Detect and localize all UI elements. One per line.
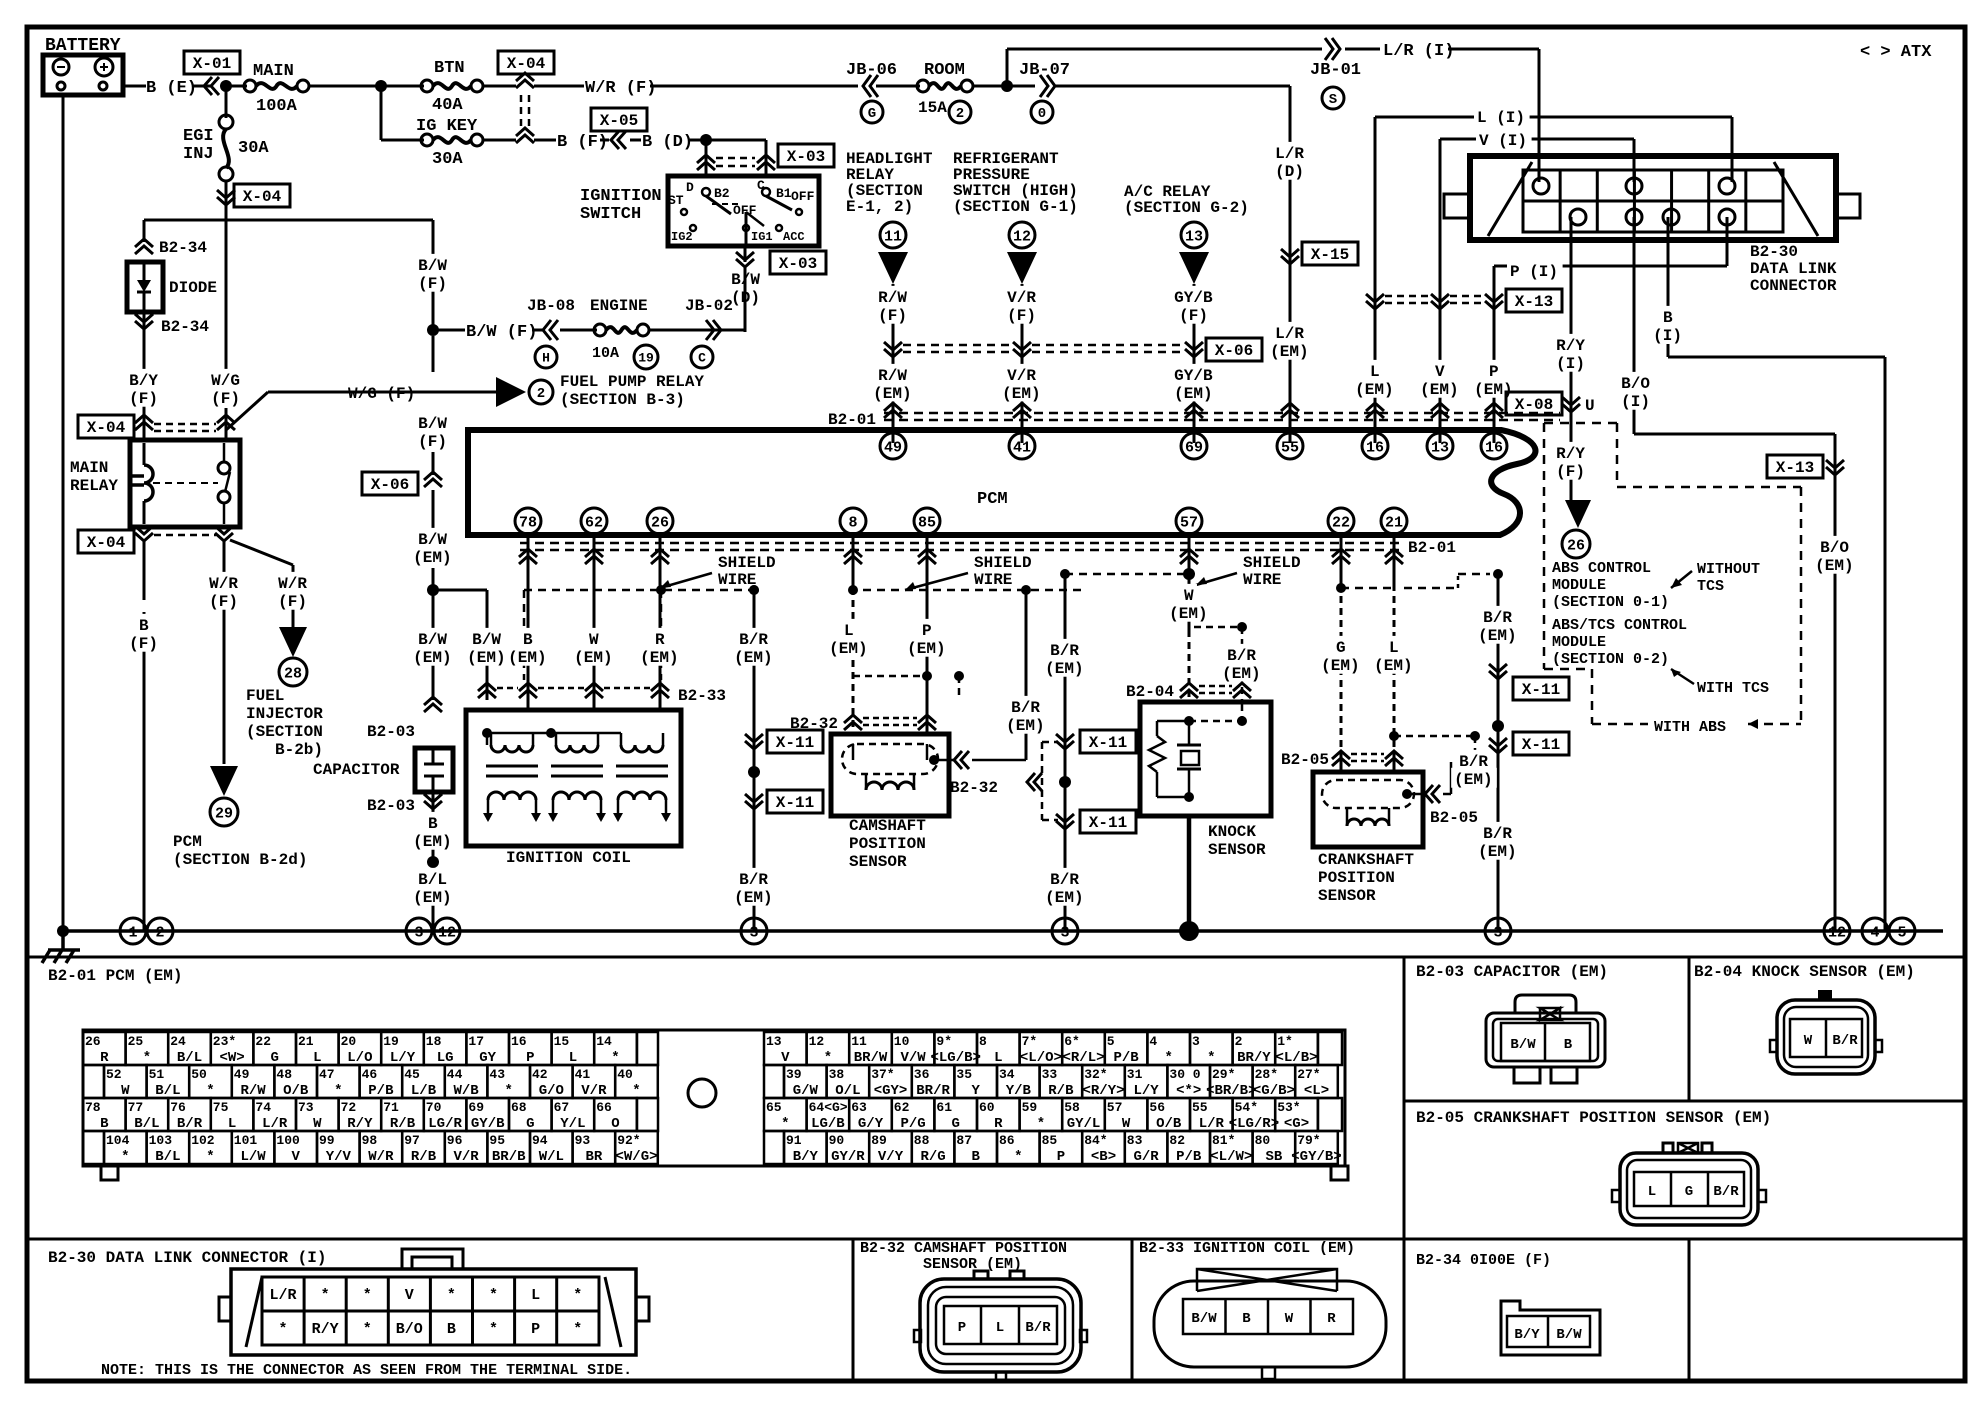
svg-text:(EM): (EM) bbox=[829, 640, 867, 658]
svg-text:B2-01: B2-01 bbox=[828, 411, 876, 429]
svg-text:3: 3 bbox=[749, 924, 758, 941]
svg-text:IGNITION: IGNITION bbox=[580, 187, 662, 206]
svg-text:B: B bbox=[971, 1149, 980, 1165]
svg-text:R: R bbox=[1327, 1311, 1336, 1327]
svg-text:<R/Y>: <R/Y> bbox=[1082, 1083, 1124, 1099]
svg-text:GY/B: GY/B bbox=[471, 1116, 505, 1132]
svg-text:X-11: X-11 bbox=[1089, 734, 1127, 752]
svg-text:V/R: V/R bbox=[581, 1083, 607, 1099]
dashed crank link bbox=[1394, 735, 1475, 738]
coil pin wires inside bbox=[486, 733, 489, 745]
svg-text:46: 46 bbox=[362, 1067, 378, 1082]
svg-text:SHIELD: SHIELD bbox=[1243, 554, 1301, 572]
arrow 28 bbox=[279, 627, 307, 657]
svg-text:B/W (F): B/W (F) bbox=[466, 323, 537, 342]
wire battery to X-01 bbox=[123, 85, 146, 88]
svg-text:26: 26 bbox=[85, 1034, 101, 1049]
svg-text:83: 83 bbox=[1127, 1133, 1143, 1148]
svg-text:G/W: G/W bbox=[793, 1083, 819, 1099]
horizontal distribution wire y=220 bbox=[144, 219, 433, 222]
svg-text:21: 21 bbox=[298, 1034, 314, 1049]
svg-text:38: 38 bbox=[829, 1067, 845, 1082]
svg-text:W/L: W/L bbox=[539, 1149, 564, 1165]
svg-text:LG: LG bbox=[437, 1050, 454, 1066]
diode connector drawing bbox=[1501, 1301, 1600, 1355]
svg-text:G: G bbox=[526, 1116, 534, 1132]
svg-text:2: 2 bbox=[956, 106, 964, 122]
svg-text:SB: SB bbox=[1265, 1149, 1282, 1165]
svg-text:41: 41 bbox=[575, 1067, 591, 1082]
svg-text:*: * bbox=[573, 1321, 582, 1338]
battery bbox=[43, 55, 123, 95]
svg-text:25: 25 bbox=[128, 1034, 144, 1049]
svg-text:55: 55 bbox=[1192, 1100, 1208, 1115]
svg-text:16: 16 bbox=[511, 1034, 527, 1049]
svg-text:BR/B: BR/B bbox=[492, 1149, 526, 1165]
svg-text:INJECTOR: INJECTOR bbox=[246, 705, 323, 723]
svg-text:B: B bbox=[1242, 1311, 1251, 1327]
svg-text:L/B: L/B bbox=[411, 1083, 437, 1099]
svg-text:(EM): (EM) bbox=[1169, 605, 1207, 623]
svg-text:66: 66 bbox=[596, 1100, 612, 1115]
svg-text:B/R: B/R bbox=[1713, 1184, 1739, 1200]
knock sensor connector drawing bbox=[1818, 990, 1832, 1000]
svg-text:8: 8 bbox=[979, 1034, 987, 1049]
capacitor connector drawing bbox=[1515, 995, 1576, 1013]
svg-text:(EM): (EM) bbox=[1478, 843, 1516, 861]
svg-text:DIODE: DIODE bbox=[169, 279, 217, 297]
svg-text:OFF: OFF bbox=[791, 189, 815, 204]
svg-text:(F): (F) bbox=[418, 433, 447, 451]
svg-text:WITH ABS: WITH ABS bbox=[1654, 719, 1726, 736]
wire W/R(F) to PCM 29 bbox=[223, 540, 226, 764]
camshaft position sensor box bbox=[831, 734, 949, 816]
svg-text:12: 12 bbox=[1013, 228, 1031, 245]
svg-text:86: 86 bbox=[999, 1133, 1015, 1148]
svg-text:2: 2 bbox=[1235, 1034, 1243, 1049]
svg-text:22: 22 bbox=[255, 1034, 271, 1049]
svg-text:IGNITION COIL: IGNITION COIL bbox=[506, 849, 631, 867]
connector X-01 bbox=[204, 77, 219, 95]
svg-text:L/W: L/W bbox=[240, 1149, 266, 1165]
svg-text:L: L bbox=[994, 1050, 1002, 1066]
wire B/R return camshaft bbox=[1025, 590, 1028, 760]
wire B/R right column bbox=[1497, 574, 1500, 931]
svg-text:Y: Y bbox=[971, 1083, 980, 1099]
svg-text:13: 13 bbox=[1185, 228, 1203, 245]
svg-text:NOTE: THIS IS THE CONNECTOR AS: NOTE: THIS IS THE CONNECTOR AS SEEN FROM… bbox=[101, 1362, 632, 1379]
connector X-13 right bbox=[1767, 455, 1823, 478]
svg-text:B/Y: B/Y bbox=[793, 1149, 819, 1165]
svg-text:56: 56 bbox=[1149, 1100, 1165, 1115]
ignition switch box bbox=[668, 176, 819, 246]
svg-text:47: 47 bbox=[319, 1067, 335, 1082]
section divider vertical x=1404 bbox=[1403, 957, 1406, 1381]
svg-text:*: * bbox=[334, 1083, 342, 1099]
connector X-05 bbox=[591, 108, 647, 131]
svg-text:15A: 15A bbox=[918, 99, 947, 117]
svg-text:92*: 92* bbox=[617, 1133, 640, 1148]
camshaft connector drawing bottom bbox=[974, 1271, 988, 1279]
svg-text:W/R: W/R bbox=[368, 1149, 394, 1165]
svg-text:80: 80 bbox=[1255, 1133, 1271, 1148]
svg-text:54*: 54* bbox=[1235, 1100, 1258, 1115]
svg-text:B (E): B (E) bbox=[146, 79, 197, 98]
svg-text:69: 69 bbox=[468, 1100, 484, 1115]
svg-text:JB-06: JB-06 bbox=[846, 61, 897, 80]
svg-text:L (I): L (I) bbox=[1477, 109, 1525, 127]
section divider vertical B2-03/B2-04 bbox=[1688, 957, 1691, 1101]
svg-text:B/R: B/R bbox=[177, 1116, 203, 1132]
knock sensor internals bbox=[1149, 736, 1165, 772]
svg-text:(F): (F) bbox=[1007, 307, 1036, 325]
svg-text:(SECTION B-2d): (SECTION B-2d) bbox=[173, 851, 307, 869]
svg-text:82: 82 bbox=[1169, 1133, 1185, 1148]
svg-text:B2-01: B2-01 bbox=[1408, 539, 1456, 557]
svg-text:40: 40 bbox=[617, 1067, 633, 1082]
svg-text:G: G bbox=[1685, 1184, 1693, 1200]
svg-text:X-11: X-11 bbox=[776, 794, 814, 812]
connector X-15 bbox=[1281, 249, 1299, 264]
svg-text:(F): (F) bbox=[278, 593, 307, 611]
svg-text:L/O: L/O bbox=[347, 1050, 372, 1066]
svg-text:X-06: X-06 bbox=[1215, 342, 1253, 360]
wires into ignition coil bbox=[527, 534, 530, 712]
svg-text:< > ATX: < > ATX bbox=[1860, 43, 1932, 62]
connector X-13 row bbox=[1366, 294, 1384, 309]
svg-text:50: 50 bbox=[191, 1067, 207, 1082]
PCM table row4 right bbox=[784, 1131, 827, 1164]
svg-text:B2-33: B2-33 bbox=[678, 687, 726, 705]
shield dashed bus coil group bbox=[524, 589, 754, 592]
svg-text:(SECTION G-1): (SECTION G-1) bbox=[953, 198, 1078, 216]
svg-text:<GY>: <GY> bbox=[874, 1083, 908, 1099]
svg-text:B/L: B/L bbox=[155, 1149, 180, 1165]
svg-text:69: 69 bbox=[1185, 439, 1203, 456]
svg-text:52: 52 bbox=[106, 1067, 122, 1082]
wire MAIN fuse to BTN fuse bbox=[309, 85, 424, 88]
svg-text:19: 19 bbox=[638, 351, 654, 366]
svg-text:12: 12 bbox=[438, 924, 456, 941]
svg-text:(SECTION 0-1): (SECTION 0-1) bbox=[1552, 594, 1669, 611]
svg-text:(F): (F) bbox=[209, 593, 238, 611]
PCM bottom pins bbox=[515, 508, 541, 534]
svg-text:B/R: B/R bbox=[1832, 1033, 1858, 1049]
svg-text:41: 41 bbox=[1013, 439, 1031, 456]
svg-text:60: 60 bbox=[979, 1100, 995, 1115]
svg-text:R: R bbox=[994, 1116, 1003, 1132]
crankshaft exit wire B2-05 bbox=[1402, 789, 1412, 799]
svg-text:95: 95 bbox=[489, 1133, 505, 1148]
svg-text:36: 36 bbox=[914, 1067, 930, 1082]
svg-text:11: 11 bbox=[884, 228, 902, 245]
svg-text:11: 11 bbox=[851, 1034, 867, 1049]
svg-text:X-15: X-15 bbox=[1311, 246, 1349, 264]
wire B/W(F) column bbox=[432, 220, 435, 325]
data link pins bbox=[1533, 178, 1549, 194]
svg-text:40A: 40A bbox=[432, 96, 463, 115]
svg-text:(EM): (EM) bbox=[640, 649, 678, 667]
svg-text:X-03: X-03 bbox=[779, 255, 817, 273]
svg-text:(EM): (EM) bbox=[1454, 771, 1492, 789]
svg-text:R/B: R/B bbox=[390, 1116, 416, 1132]
svg-text:MODULE: MODULE bbox=[1552, 577, 1606, 594]
svg-text:79*: 79* bbox=[1297, 1133, 1320, 1148]
svg-text:35: 35 bbox=[956, 1067, 972, 1082]
wire W/R(F) to JB-06 bbox=[534, 85, 584, 88]
svg-text:(F): (F) bbox=[211, 390, 240, 408]
wire R/Y(F) to ABS bbox=[1553, 442, 1589, 462]
svg-text:POSITION: POSITION bbox=[1318, 869, 1395, 887]
dashed B/R knock right bbox=[1194, 626, 1242, 629]
svg-text:62: 62 bbox=[894, 1100, 910, 1115]
wire B/O(I) bbox=[1633, 217, 1636, 434]
svg-text:B2-05: B2-05 bbox=[1281, 751, 1329, 769]
PCM connector table outline bbox=[83, 1030, 1345, 1166]
diode bbox=[127, 262, 163, 312]
svg-text:18: 18 bbox=[426, 1034, 442, 1049]
svg-text:MAIN: MAIN bbox=[253, 62, 294, 81]
svg-text:X-11: X-11 bbox=[1522, 681, 1560, 699]
svg-text:WITH TCS: WITH TCS bbox=[1697, 680, 1769, 697]
svg-text:B2-34: B2-34 bbox=[161, 318, 209, 336]
svg-text:<G>: <G> bbox=[1284, 1116, 1309, 1132]
svg-text:78: 78 bbox=[519, 514, 537, 531]
wire W/G column bbox=[225, 220, 228, 372]
svg-text:IG1: IG1 bbox=[751, 230, 773, 244]
svg-text:*: * bbox=[1037, 1116, 1045, 1132]
svg-text:101: 101 bbox=[234, 1133, 258, 1148]
svg-text:(EM): (EM) bbox=[467, 649, 505, 667]
svg-text:G: G bbox=[868, 106, 876, 122]
arrow 13 bbox=[1179, 252, 1209, 284]
svg-text:WITHOUT: WITHOUT bbox=[1697, 561, 1760, 578]
svg-text:G/O: G/O bbox=[539, 1083, 564, 1099]
svg-text:<GY/B>: <GY/B> bbox=[1291, 1149, 1341, 1165]
svg-text:30A: 30A bbox=[238, 139, 269, 158]
svg-text:(EM): (EM) bbox=[734, 649, 772, 667]
svg-text:*: * bbox=[447, 1287, 456, 1304]
node after X-01 bbox=[220, 80, 232, 92]
svg-text:B-2b): B-2b) bbox=[275, 741, 323, 759]
svg-text:<LG/R>: <LG/R> bbox=[1229, 1116, 1279, 1132]
svg-text:X-05: X-05 bbox=[600, 112, 638, 130]
svg-text:(EM): (EM) bbox=[734, 889, 772, 907]
wire B/R(EM) column mid bbox=[1064, 574, 1067, 931]
svg-text:CONNECTOR: CONNECTOR bbox=[1750, 277, 1837, 295]
svg-text:P: P bbox=[531, 1321, 540, 1338]
connector X-04 inline bbox=[498, 51, 554, 74]
wire knock to ground bbox=[1187, 816, 1192, 931]
svg-text:L/Y: L/Y bbox=[390, 1050, 416, 1066]
svg-text:X-11: X-11 bbox=[1522, 736, 1560, 754]
svg-text:*: * bbox=[573, 1287, 582, 1304]
svg-text:X-08: X-08 bbox=[1515, 396, 1553, 414]
svg-text:10: 10 bbox=[894, 1034, 910, 1049]
svg-text:B/W: B/W bbox=[1510, 1037, 1536, 1053]
svg-text:L: L bbox=[996, 1320, 1004, 1336]
svg-text:<B>: <B> bbox=[1091, 1149, 1116, 1165]
fuel pump relay arrow bbox=[496, 377, 526, 407]
svg-text:V: V bbox=[291, 1149, 300, 1165]
wire up to L/R(I) row bbox=[1006, 49, 1009, 86]
svg-text:L/R: L/R bbox=[262, 1116, 288, 1132]
svg-text:22: 22 bbox=[1332, 514, 1350, 531]
svg-text:*: * bbox=[206, 1083, 214, 1099]
svg-text:17: 17 bbox=[468, 1034, 484, 1049]
svg-text:42: 42 bbox=[532, 1067, 548, 1082]
wire R/Y(I) from data link bbox=[1570, 217, 1573, 498]
section divider horizontal (schematic / connector tables) bbox=[27, 956, 1965, 959]
svg-text:(EM): (EM) bbox=[1006, 717, 1044, 735]
svg-text:(SECTION: (SECTION bbox=[246, 723, 323, 741]
svg-text:B/Y: B/Y bbox=[1514, 1327, 1540, 1343]
svg-text:14: 14 bbox=[596, 1034, 612, 1049]
svg-text:X-04: X-04 bbox=[87, 534, 126, 552]
svg-text:G/Y: G/Y bbox=[858, 1116, 884, 1132]
svg-text:53*: 53* bbox=[1277, 1100, 1300, 1115]
wire L/R(I) down to data link pin bbox=[1538, 49, 1541, 182]
svg-text:BTN: BTN bbox=[434, 59, 465, 78]
svg-text:L: L bbox=[531, 1287, 540, 1304]
svg-text:(F): (F) bbox=[1179, 307, 1208, 325]
svg-text:1: 1 bbox=[128, 924, 137, 941]
svg-text:MAIN: MAIN bbox=[70, 459, 108, 477]
svg-text:5: 5 bbox=[1897, 924, 1906, 941]
svg-text:<L/B>: <L/B> bbox=[1275, 1050, 1317, 1066]
svg-text:16: 16 bbox=[1485, 439, 1503, 456]
svg-text:BR/R: BR/R bbox=[916, 1083, 950, 1099]
connector chevron on L/R(I) bbox=[1325, 38, 1340, 60]
wire B(I) bbox=[1667, 217, 1670, 306]
arrow to ABS bbox=[1565, 500, 1591, 528]
svg-text:32*: 32* bbox=[1084, 1067, 1107, 1082]
svg-text:X-11: X-11 bbox=[776, 734, 814, 752]
svg-text:*: * bbox=[611, 1050, 619, 1066]
svg-text:*: * bbox=[363, 1321, 372, 1338]
svg-text:48: 48 bbox=[276, 1067, 292, 1082]
svg-text:B2-03 CAPACITOR (EM): B2-03 CAPACITOR (EM) bbox=[1416, 963, 1608, 981]
svg-text:SENSOR: SENSOR bbox=[849, 853, 907, 871]
svg-text:GY: GY bbox=[479, 1050, 496, 1066]
svg-text:(EM): (EM) bbox=[1420, 381, 1458, 399]
svg-text:R/W: R/W bbox=[240, 1083, 266, 1099]
svg-text:(EM): (EM) bbox=[574, 649, 612, 667]
svg-text:59: 59 bbox=[1022, 1100, 1038, 1115]
svg-text:3: 3 bbox=[1192, 1034, 1200, 1049]
svg-text:B: B bbox=[447, 1321, 456, 1338]
svg-text:SHIELD: SHIELD bbox=[718, 554, 776, 572]
svg-text:57: 57 bbox=[1180, 514, 1198, 531]
labels EM row bbox=[875, 364, 911, 384]
arrow 12 bbox=[1007, 252, 1037, 284]
svg-text:*: * bbox=[1207, 1050, 1215, 1066]
section divider vertical B2-34/empty bbox=[1688, 1239, 1691, 1381]
svg-text:8: 8 bbox=[848, 514, 857, 531]
svg-text:28: 28 bbox=[284, 665, 302, 682]
svg-text:GY/L: GY/L bbox=[1067, 1116, 1101, 1132]
data link connector trapezoid + grid bbox=[1488, 162, 1532, 236]
svg-text:84*: 84* bbox=[1084, 1133, 1107, 1148]
svg-text:(F): (F) bbox=[418, 275, 447, 293]
svg-text:(EM): (EM) bbox=[907, 640, 945, 658]
svg-text:*: * bbox=[824, 1050, 832, 1066]
svg-text:B2-30: B2-30 bbox=[1750, 243, 1798, 261]
svg-text:KNOCK: KNOCK bbox=[1208, 823, 1256, 841]
svg-text:PCM: PCM bbox=[977, 490, 1008, 509]
svg-text:58: 58 bbox=[1064, 1100, 1080, 1115]
svg-text:100A: 100A bbox=[256, 97, 298, 116]
ignition coil connector drawing bottom bbox=[1197, 1269, 1337, 1291]
svg-text:28*: 28* bbox=[1255, 1067, 1278, 1082]
svg-text:*: * bbox=[121, 1149, 129, 1165]
svg-text:(EM): (EM) bbox=[1045, 889, 1083, 907]
svg-text:BR: BR bbox=[585, 1149, 602, 1165]
svg-text:E-1, 2): E-1, 2) bbox=[846, 198, 913, 216]
svg-text:ACC: ACC bbox=[783, 230, 805, 244]
svg-text:BR/Y: BR/Y bbox=[1237, 1050, 1271, 1066]
svg-text:85: 85 bbox=[918, 514, 936, 531]
crankshaft position sensor box bbox=[1313, 772, 1423, 847]
svg-text:12: 12 bbox=[809, 1034, 825, 1049]
svg-text:(EM): (EM) bbox=[1045, 660, 1083, 678]
engine fuse row B/W(F) bbox=[433, 329, 465, 332]
arrow 11 bbox=[878, 252, 908, 284]
svg-text:*: * bbox=[1014, 1149, 1022, 1165]
knock sensor box bbox=[1140, 702, 1271, 816]
svg-text:5: 5 bbox=[1107, 1034, 1115, 1049]
PCM table row2 left bbox=[104, 1065, 147, 1098]
section divider horizontal (tables row 2) bbox=[27, 1238, 1965, 1241]
L/R (D) label bbox=[1272, 142, 1308, 162]
connector X-04 above main relay bbox=[78, 415, 134, 438]
svg-text:72: 72 bbox=[341, 1100, 357, 1115]
svg-text:(F): (F) bbox=[129, 390, 158, 408]
svg-text:(EM): (EM) bbox=[1815, 557, 1853, 575]
shield dashed bus camshaft bbox=[849, 589, 1086, 592]
svg-text:X-06: X-06 bbox=[371, 476, 409, 494]
connector X-04 on EGI wire bbox=[217, 190, 235, 205]
svg-text:ROOM: ROOM bbox=[924, 61, 965, 80]
svg-text:CRANKSHAFT: CRANKSHAFT bbox=[1318, 851, 1414, 869]
svg-text:B/W: B/W bbox=[1191, 1311, 1217, 1327]
svg-text:(SECTION B-3): (SECTION B-3) bbox=[560, 391, 685, 409]
svg-text:P: P bbox=[1057, 1149, 1065, 1165]
svg-text:*: * bbox=[504, 1083, 512, 1099]
svg-text:B (D): B (D) bbox=[642, 133, 693, 152]
svg-text:<BR/B>: <BR/B> bbox=[1206, 1083, 1256, 1099]
label B/O (EM) bbox=[1817, 536, 1853, 556]
svg-text:9*: 9* bbox=[936, 1034, 952, 1049]
PCM table row3 right bbox=[764, 1098, 807, 1131]
svg-text:37*: 37* bbox=[871, 1067, 894, 1082]
svg-text:BR/W: BR/W bbox=[854, 1050, 888, 1066]
dashed link camshaft bbox=[853, 675, 927, 678]
svg-text:PCM: PCM bbox=[173, 833, 202, 851]
svg-text:31: 31 bbox=[1127, 1067, 1143, 1082]
svg-text:V/R: V/R bbox=[453, 1149, 479, 1165]
svg-text:<LG/B>: <LG/B> bbox=[930, 1050, 980, 1066]
svg-text:X-04: X-04 bbox=[87, 419, 126, 437]
circle 12 refrigerant bbox=[1009, 222, 1035, 248]
svg-text:(I): (I) bbox=[1556, 355, 1585, 373]
svg-text:B/L: B/L bbox=[177, 1050, 202, 1066]
svg-text:B2-04 KNOCK SENSOR (EM): B2-04 KNOCK SENSOR (EM) bbox=[1694, 963, 1915, 981]
ABS dashed enclosure bbox=[1544, 422, 1617, 425]
svg-text:B/L: B/L bbox=[134, 1116, 159, 1132]
fuse EGI INJ 30A vertical bbox=[225, 86, 228, 118]
svg-text:B2-03: B2-03 bbox=[367, 723, 415, 741]
